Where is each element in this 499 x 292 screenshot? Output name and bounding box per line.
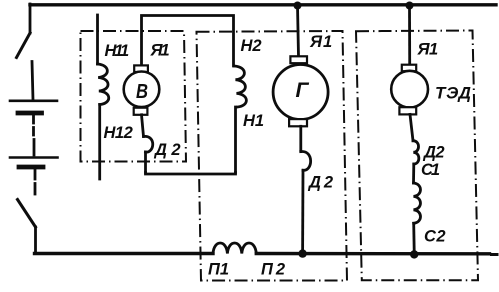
battery GB cell1 short plate bbox=[18, 111, 42, 116]
switch S1 blade bbox=[17, 33, 31, 58]
machine ТЭД bottom brush bbox=[399, 107, 416, 114]
svg-text:Д2: Д2 bbox=[153, 141, 185, 159]
svg-text:Н12: Н12 bbox=[104, 124, 133, 142]
wire Д2(В) to Н1 horizontal bbox=[146, 173, 236, 175]
wire bbox=[412, 164, 415, 183]
wire left riser bbox=[29, 4, 32, 33]
wire Г bottom bbox=[299, 126, 302, 151]
machine В bottom brush bbox=[134, 108, 148, 115]
svg-text:П1: П1 bbox=[208, 261, 229, 279]
enclosure box generator group (dash-dot) bbox=[197, 31, 348, 281]
inductor П1-П2 series winding bbox=[213, 243, 256, 254]
svg-text:П2: П2 bbox=[261, 261, 288, 279]
svg-text:Д2: Д2 bbox=[307, 174, 336, 192]
machine Г circle bbox=[273, 65, 328, 120]
wire bottom bus left segment bbox=[35, 252, 214, 255]
winding Д2 hook of Г bbox=[301, 152, 311, 171]
battery dashed middle bbox=[32, 128, 35, 136]
node junction top bus - Г bbox=[294, 2, 302, 10]
wire Г to bottom bus bbox=[301, 170, 304, 251]
svg-text:ТЭД: ТЭД bbox=[435, 84, 471, 103]
machine Г top brush bbox=[290, 56, 307, 63]
node junction bottom bus - Г bbox=[298, 249, 306, 257]
wire stub bbox=[32, 115, 35, 123]
wire ТЭД to bottom bus bbox=[412, 223, 415, 251]
svg-text:В: В bbox=[136, 81, 148, 103]
machine ТЭД circle bbox=[391, 71, 428, 108]
wire Г top bbox=[298, 6, 299, 57]
battery GB cell1 long plate bbox=[10, 100, 57, 103]
svg-text:Н2: Н2 bbox=[241, 37, 262, 55]
svg-text:Я1: Я1 bbox=[150, 42, 170, 60]
svg-text:Г: Г bbox=[296, 79, 310, 102]
wire stub dashed bbox=[34, 184, 37, 195]
wire link В armature to Н2 bbox=[142, 16, 234, 67]
wire top bus bbox=[30, 3, 496, 6]
svg-text:Я1: Я1 bbox=[309, 33, 333, 51]
wire bottom bus right segment bbox=[256, 252, 489, 256]
battery GB cell2 short plate bbox=[19, 165, 43, 170]
wire ТЭД bottom bbox=[410, 114, 413, 140]
machine В (exciter) top brush bbox=[134, 65, 148, 72]
enclosure box traction motor group (dash-dot) bbox=[356, 31, 478, 281]
svg-text:Н1: Н1 bbox=[243, 112, 264, 130]
wire bbox=[32, 62, 33, 101]
winding Д2 of ТЭД (two arcs) bbox=[413, 141, 419, 164]
enclosure box exciter group (dash-dot) bbox=[81, 31, 187, 162]
svg-text:Н11: Н11 bbox=[105, 42, 129, 60]
wire bottom bus end dash bbox=[492, 253, 498, 256]
winding Н2-Н1 generator field bbox=[235, 66, 247, 107]
winding С1-С2 series field of ТЭД bbox=[414, 183, 421, 223]
svg-text:С2: С2 bbox=[424, 228, 446, 246]
svg-text:Я1: Я1 bbox=[417, 41, 439, 59]
battery GB cell2 long plate bbox=[10, 156, 58, 159]
winding Н11-Н12 exciter field bbox=[96, 15, 99, 64]
wire stub bbox=[33, 140, 36, 156]
node junction top bus - ТЭД bbox=[406, 2, 414, 10]
machine ТЭД top brush bbox=[402, 65, 416, 72]
machine В circle bbox=[124, 72, 160, 108]
wire stub bbox=[34, 169, 37, 179]
wire В bottom bbox=[142, 115, 144, 137]
wire ТЭД top bbox=[408, 6, 411, 65]
svg-text:Д2: Д2 bbox=[422, 144, 444, 162]
winding Д2 hook of В bbox=[144, 136, 153, 152]
wire down to bottom bus bbox=[34, 227, 37, 252]
switch S2 blade bbox=[18, 200, 36, 228]
node junction bottom bus - ТЭД bbox=[410, 250, 418, 258]
wire bbox=[144, 152, 147, 173]
machine Г bottom brush bbox=[289, 119, 307, 126]
svg-text:С1: С1 bbox=[421, 161, 440, 179]
